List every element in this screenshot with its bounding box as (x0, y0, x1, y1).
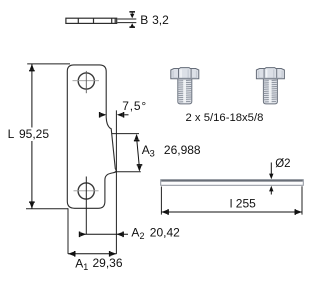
svg-text:29,36: 29,36 (93, 256, 123, 270)
dimension A2 line + arrows (79, 233, 128, 235)
dimension l line + arrows (161, 211, 302, 213)
svg-text:2: 2 (140, 231, 145, 241)
upper hole (78, 73, 94, 89)
dimension A1 line + arrows (68, 253, 116, 255)
dimension L extension lines (26, 64, 70, 209)
top-view bar (plate edge view, thickness B) (66, 18, 117, 23)
svg-text:B: B (140, 13, 148, 27)
lower hole (78, 183, 94, 199)
dimension B extension lines (117, 19, 136, 23)
svg-text:20,42: 20,42 (150, 225, 180, 239)
dimension B arrows (129, 11, 135, 28)
dimension A3 line + arrows (137, 140, 139, 166)
dimension dia 2 leader + arrows (270, 163, 272, 195)
svg-text:26,988: 26,988 (164, 143, 201, 157)
rod (161, 180, 304, 186)
svg-text:A: A (75, 256, 83, 270)
lower hole centerline (extends to A2 dim) (85, 177, 87, 235)
lower silhouette right edge / 7.5deg + A1 extension (115, 110, 117, 254)
svg-text:A: A (131, 226, 139, 240)
lower hole crosshair (74, 190, 99, 192)
upper hole crosshair (73, 71, 100, 93)
svg-text:1: 1 (83, 262, 88, 272)
svg-text:L: L (8, 127, 15, 141)
bracket plate front face (67, 65, 116, 208)
svg-text:Ø2: Ø2 (275, 158, 290, 170)
svg-text:3: 3 (150, 149, 155, 160)
bolt 1 (171, 68, 199, 104)
lower silhouette left edge / A1 extension (67, 208, 69, 254)
dimension L line + arrows (31, 64, 33, 209)
dimension A3 extension lines (112, 134, 141, 172)
svg-text:7,5°: 7,5° (122, 99, 147, 113)
svg-text:95,25: 95,25 (19, 127, 49, 141)
dimension 7.5deg arrows (99, 112, 129, 118)
dimension l extension lines (161, 186, 302, 214)
svg-text:l 255: l 255 (230, 196, 256, 210)
svg-text:2 x 5/16-18x5/8: 2 x 5/16-18x5/8 (186, 112, 264, 124)
bolt 2 (256, 68, 284, 104)
svg-text:A: A (142, 143, 150, 157)
svg-text:3,2: 3,2 (152, 13, 169, 27)
